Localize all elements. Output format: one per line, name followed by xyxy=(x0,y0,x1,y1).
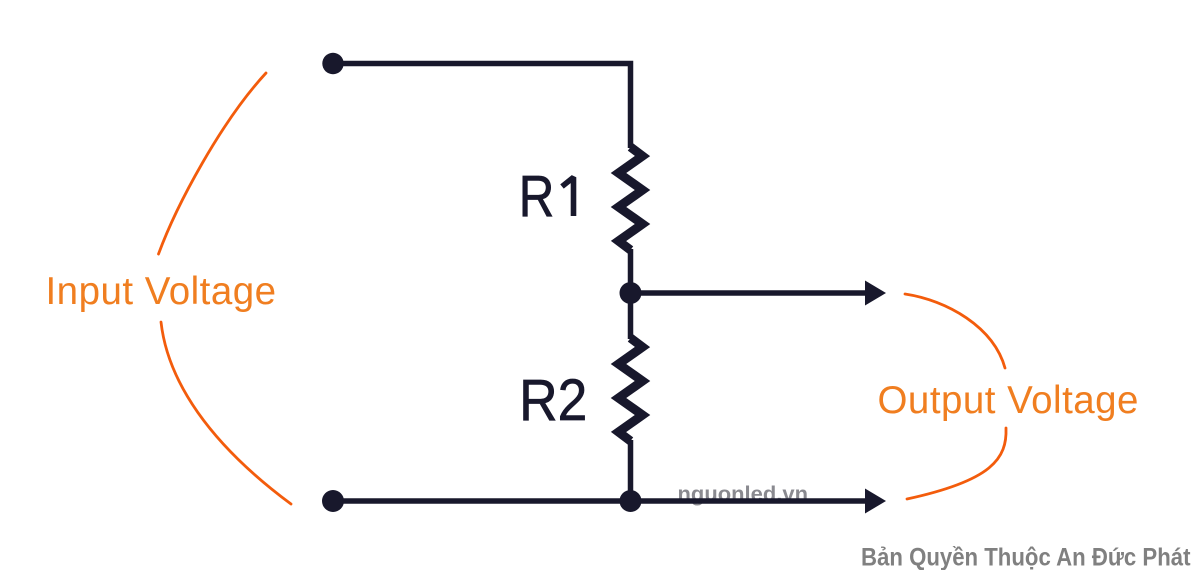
svg-text:Input Voltage: Input Voltage xyxy=(46,270,277,313)
svg-text:Bản Quyền Thuộc An Đức Phát: Bản Quyền Thuộc An Đức Phát xyxy=(861,544,1191,570)
svg-text:Output Voltage: Output Voltage xyxy=(878,379,1139,422)
svg-text:R2: R2 xyxy=(519,368,587,433)
svg-text:R: R xyxy=(519,164,555,229)
